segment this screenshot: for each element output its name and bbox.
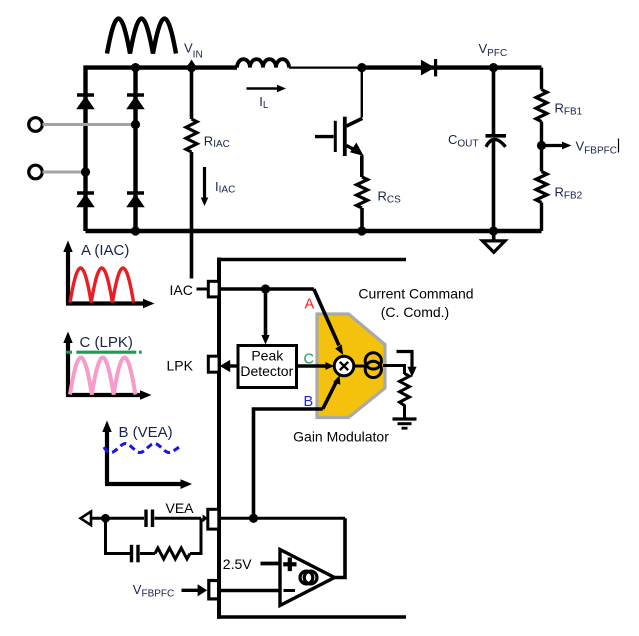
- wire IAC inside: [219, 287, 314, 291]
- wire B from VEA node: [254, 409, 323, 518]
- AC terminal 1: [29, 118, 43, 132]
- svg-text:Gain Modulator: Gain Modulator: [293, 429, 389, 445]
- svg-text:(C. Comd.): (C. Comd.): [381, 304, 449, 320]
- svg-text:Detector: Detector: [240, 363, 293, 379]
- op-amp U1: [280, 550, 335, 606]
- svg-text:B: B: [304, 394, 314, 410]
- node drain: [357, 63, 366, 72]
- node rail-leg2: [131, 63, 140, 72]
- op-amp plus: [283, 558, 296, 572]
- junction dots top circuit: [81, 63, 546, 236]
- pin LPK: [208, 356, 219, 372]
- resistor R_IAC: [186, 119, 197, 152]
- wire V_IN to R_IAC: [190, 68, 194, 119]
- wire cap to resistor: [140, 552, 155, 555]
- arrow to peak detector: [261, 289, 269, 345]
- bridge left leg: [83, 65, 87, 231]
- svg-text:C: C: [304, 352, 314, 368]
- wire VEA inside: [219, 517, 345, 520]
- diode D1 (left top): [77, 95, 94, 109]
- svg-text:LPK: LPK: [167, 358, 194, 374]
- inductor L: [237, 59, 289, 67]
- waveform C axes: [63, 332, 151, 400]
- current source symbol: [365, 353, 381, 378]
- resistor (comp): [155, 548, 190, 559]
- node IAC branch: [261, 284, 270, 293]
- transistor Q1 (IGBT): [315, 68, 363, 177]
- gray wire 2: [43, 171, 86, 174]
- svg-text:C (LPK): C (LPK): [80, 334, 133, 351]
- open arrow left: [81, 512, 92, 526]
- waveform A red humps: [70, 268, 134, 303]
- resistor R_FB1: [536, 90, 547, 122]
- wire current command out: [383, 366, 405, 375]
- resistor (current command load): [400, 374, 410, 419]
- svg-text:Current Command: Current Command: [358, 286, 473, 302]
- resistor R_CS: [357, 177, 368, 208]
- wire B diagonal into multiplier: [323, 375, 341, 409]
- gray wire 1: [43, 123, 136, 126]
- resistor R_FB2: [536, 172, 547, 203]
- gain modulator body: [317, 314, 385, 418]
- box top edge: [217, 258, 406, 262]
- wire A diagonal into multiplier: [314, 289, 343, 355]
- pin VFBPFC: [209, 581, 219, 599]
- svg-text:A (IAC): A (IAC): [81, 242, 129, 259]
- input sine wave: [107, 19, 176, 54]
- box left edge: [217, 258, 221, 619]
- AC terminal 2: [29, 165, 43, 179]
- waveform B blue dashed wave: [104, 444, 180, 453]
- node bottom-RCS: [357, 226, 366, 235]
- bridge right leg: [133, 68, 137, 231]
- wire V_PFC to C_OUT: [492, 68, 496, 134]
- top rail (left segment): [86, 65, 238, 69]
- feedback wire right/down: [334, 518, 345, 577]
- op-amp minus: [284, 589, 296, 592]
- waveform C green dashed line: [66, 351, 141, 354]
- arrowhead into VEA pin: [203, 514, 208, 522]
- node V_PFC: [489, 63, 498, 72]
- wire R_CS to bottom rail: [360, 208, 364, 231]
- wire arrow to cap: [91, 517, 144, 520]
- diode D2 (right top): [127, 95, 144, 109]
- node V_IN arrow: [189, 60, 195, 65]
- waveform C pink humps: [70, 358, 135, 395]
- waveform A axes: [63, 241, 154, 309]
- wire inductor to drain node (thin): [289, 66, 362, 68]
- wire C_OUT to bottom rail: [492, 139, 496, 231]
- pin VEA: [208, 509, 219, 529]
- wire 2.5V to plus input: [261, 562, 280, 566]
- arrow into VFBPFC pin: [182, 584, 208, 596]
- diode D4 (right bottom): [127, 193, 144, 207]
- box bottom edge: [217, 615, 406, 619]
- node bottom-COUT: [489, 226, 498, 235]
- node comp junction: [101, 514, 110, 523]
- ground (current command): [393, 419, 417, 428]
- I_L arrow: [247, 85, 287, 93]
- wire cap to pin: [155, 517, 202, 520]
- wire R_FB1 to node: [540, 122, 543, 172]
- node VEA inside: [249, 514, 258, 523]
- comp vertical branch: [106, 518, 131, 553]
- wire IAC stub: [197, 288, 209, 291]
- capacitor C_OUT: [486, 136, 507, 147]
- capacitor (bottom branch): [132, 545, 139, 563]
- node bottom-leg2: [131, 226, 140, 235]
- capacitor (top branch): [146, 510, 153, 528]
- svg-text:IAC: IAC: [170, 282, 193, 298]
- ground (output): [483, 231, 506, 252]
- wire R_IAC down to IAC label: [190, 152, 194, 279]
- current direction arrow: [397, 352, 417, 378]
- multiplier symbol: [334, 356, 354, 376]
- svg-text:A: A: [305, 297, 315, 313]
- node AC1-leg2: [131, 120, 140, 129]
- wire R_FB2 to bottom rail: [540, 203, 543, 232]
- svg-text:Peak: Peak: [251, 347, 284, 363]
- op-amp current source symbol: [300, 571, 317, 584]
- text cursor artifact: [618, 139, 620, 153]
- V_FBPFC tap arrow: [542, 142, 572, 150]
- bottom rail: [86, 229, 542, 233]
- svg-text:2.5V: 2.5V: [223, 556, 252, 572]
- svg-text:VEA: VEA: [166, 500, 195, 516]
- diode D5 (boost diode): [421, 59, 435, 76]
- wire VFBPFC pin to minus input: [219, 589, 280, 593]
- wire rail to R_FB1: [540, 68, 543, 90]
- wire resistor up to VEA wire: [190, 518, 201, 553]
- svg-text:B (VEA): B (VEA): [119, 424, 173, 441]
- node FB tap: [537, 141, 546, 150]
- wire C into multiplier: [297, 362, 335, 370]
- diode D3 (left bottom): [77, 193, 94, 207]
- peak detector U2: [238, 346, 297, 388]
- pin IAC: [208, 281, 219, 297]
- node AC2-leg1: [81, 167, 90, 176]
- node V_IN: [187, 63, 196, 72]
- wire multiplier to current source: [354, 365, 365, 368]
- top rail (right segment): [362, 65, 542, 69]
- I_IAC current arrow: [201, 167, 209, 206]
- waveform B axes: [102, 421, 192, 490]
- arrow peak detector to LPK pin: [220, 360, 238, 372]
